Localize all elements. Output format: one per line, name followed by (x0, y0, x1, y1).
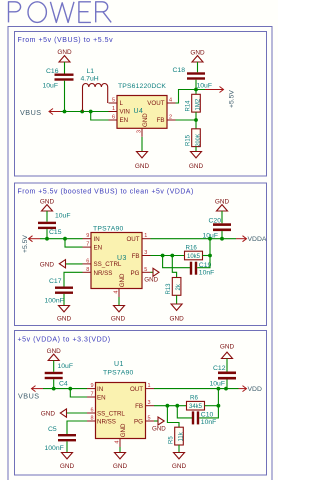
wire C4 to net (53, 379, 55, 388)
svg-text:VOUT: VOUT (147, 100, 164, 107)
junction FB to C10 (175, 404, 179, 408)
svg-text:10uF: 10uF (210, 381, 226, 388)
junction C15 (45, 237, 49, 241)
junction R16/C19 right (208, 254, 212, 258)
hierarchical label VBUS (20, 108, 61, 117)
power flag GND above C4 (47, 348, 62, 361)
wire R13 jog (172, 256, 176, 278)
svg-text:+5.5V: +5.5V (229, 90, 236, 108)
svg-text:R6: R6 (190, 395, 198, 402)
svg-text:From +5v (VBUS) to +5.5v: From +5v (VBUS) to +5.5v (18, 37, 114, 44)
junction feedback column 3 (217, 387, 221, 391)
resistor R6 (187, 395, 219, 410)
junction C16/VBUS (63, 110, 67, 114)
wire GND to C4 (53, 361, 55, 372)
wire EN jog (91, 112, 109, 121)
junction EN branch 3 (68, 387, 72, 391)
svg-text:L: L (120, 100, 124, 107)
wire C17 to ground (63, 294, 65, 306)
svg-text:GND: GND (60, 463, 75, 470)
svg-text:VDDA: VDDA (248, 236, 267, 243)
svg-text:FB: FB (135, 403, 143, 410)
wire NR/SS to C5 (67, 421, 87, 434)
svg-text:C18: C18 (173, 67, 186, 74)
svg-text:From +5.5v (boosted VBUS) to c: From +5.5v (boosted VBUS) to clean +5v (… (18, 189, 194, 196)
svg-text:100nF: 100nF (45, 445, 64, 452)
wire FB 3 (154, 405, 187, 407)
junction EN branch (89, 110, 93, 114)
svg-text:SS_CTRL: SS_CTRL (97, 410, 125, 417)
capacitor C17 (45, 278, 74, 305)
wire GND to C16 (64, 62, 66, 74)
svg-text:C5: C5 (48, 426, 57, 433)
power flag GND above C18 (190, 50, 205, 63)
junction R6/C10 right (217, 404, 221, 408)
power flag GND at SS_CTRL (40, 260, 83, 269)
svg-text:GND: GND (152, 426, 166, 433)
junction C12 (224, 387, 228, 391)
svg-text:5: 5 (112, 98, 115, 104)
svg-text:2: 2 (169, 115, 172, 121)
svg-text:+5.5V: +5.5V (22, 235, 29, 253)
svg-text:6: 6 (112, 115, 115, 121)
svg-text:GND: GND (113, 463, 128, 470)
svg-text:GND: GND (189, 163, 204, 170)
power flag GND above C16 (57, 49, 72, 62)
capacitor C10 (192, 411, 217, 426)
svg-text:R14: R14 (186, 100, 192, 112)
ground under R15 (189, 152, 204, 171)
svg-text:C16: C16 (46, 68, 59, 75)
wire U4 GND pin to ground (141, 137, 143, 152)
svg-text:C20: C20 (209, 218, 222, 225)
section 1 title (18, 37, 114, 44)
svg-text:4.7uH: 4.7uH (81, 76, 99, 83)
junction L1/VBUS (80, 110, 84, 114)
svg-text:10uF: 10uF (55, 213, 71, 220)
svg-text:2k: 2k (176, 283, 182, 290)
svg-text:FB: FB (132, 253, 140, 260)
svg-text:GND: GND (111, 316, 126, 323)
svg-text:1: 1 (148, 383, 151, 389)
svg-text:10uF: 10uF (58, 363, 74, 370)
svg-text:7: 7 (86, 242, 89, 248)
svg-text:+5v (VDDA) to +3.3(VDD): +5v (VDDA) to +3.3(VDD) (18, 337, 111, 344)
svg-text:10uF: 10uF (203, 232, 219, 239)
sheet title POWER (9, 2, 112, 23)
wire C10 right to column (199, 389, 218, 418)
resistor R5 (168, 427, 184, 452)
wire U3 GND pin to ground (118, 297, 120, 306)
wire VOUT to +5.5V net (176, 90, 206, 104)
ground under U1 (113, 453, 128, 471)
wire GND to C12 (226, 359, 228, 372)
hierarchical label +5.5V (205, 87, 236, 109)
wire C18 to net (195, 80, 197, 90)
svg-text:TPS61220DCK: TPS61220DCK (118, 83, 166, 90)
junction feedback column (208, 237, 212, 241)
svg-text:EN: EN (120, 117, 129, 124)
wire C12 to net (226, 380, 228, 389)
resistor R16 (185, 245, 211, 260)
svg-text:GND: GND (57, 49, 72, 56)
resistor R15 (186, 120, 202, 152)
svg-text:10uF: 10uF (43, 83, 59, 90)
power flag GND at SS_CTRL 3 (41, 409, 87, 418)
wire GND to C20 (221, 211, 223, 223)
section box 2 (15, 183, 267, 326)
wire C10 left jog (177, 406, 192, 418)
svg-text:NR/SS: NR/SS (97, 418, 116, 425)
svg-text:1: 1 (144, 233, 147, 239)
junction C20 (220, 237, 224, 241)
svg-text:4: 4 (169, 98, 172, 104)
svg-text:GND: GND (172, 463, 187, 470)
capacitor C16 (43, 68, 74, 90)
svg-text:C4: C4 (59, 381, 68, 388)
svg-text:GND: GND (119, 273, 126, 287)
wire C16 to VBUS net (64, 81, 66, 112)
power flag GND above C12 (220, 344, 235, 359)
wire C5 to ground (66, 441, 68, 452)
svg-text:100nF: 100nF (45, 298, 64, 305)
wire R5 jog (167, 406, 179, 428)
svg-text:OUT: OUT (130, 386, 143, 393)
junction C18/R14 (194, 88, 198, 92)
resistor R14 (186, 90, 202, 121)
power flag GND at PG 3 (152, 417, 166, 433)
svg-text:VDD: VDD (248, 386, 262, 393)
svg-text:TPS7A90: TPS7A90 (93, 226, 124, 233)
wire IN net (40, 238, 83, 240)
junction FB divider (194, 118, 198, 122)
wire OUT net 3 (154, 388, 239, 390)
capacitor C15 (38, 213, 71, 237)
junction FB to C19 (170, 254, 174, 258)
capacitor C19 (190, 262, 215, 277)
hierarchical label VDDA (236, 236, 267, 244)
wire OUT net (151, 238, 237, 240)
svg-text:10k5: 10k5 (187, 254, 201, 260)
svg-text:8: 8 (90, 416, 93, 422)
junction FB to R13 (161, 254, 165, 258)
IC U4 TPS61220DCK (109, 83, 176, 137)
wire C20 to net (221, 231, 223, 239)
junction FB to R5 (166, 404, 170, 408)
svg-text:GND: GND (57, 316, 72, 323)
svg-text:GND: GND (120, 423, 127, 437)
svg-text:PG: PG (134, 418, 143, 425)
svg-text:IN: IN (94, 236, 100, 243)
svg-text:10nF: 10nF (201, 419, 217, 426)
section 2 title (18, 189, 194, 196)
ground under C17 (57, 306, 72, 323)
wire EN jog 2 (65, 239, 83, 247)
capacitor C5 (45, 426, 77, 452)
wire GND to C15 (46, 211, 48, 222)
ground under R5 (172, 453, 187, 471)
svg-text:6: 6 (90, 408, 93, 414)
svg-text:SS_CTRL: SS_CTRL (94, 261, 122, 268)
wire NR/SS to C17 (64, 272, 83, 286)
IC U3 TPS7A90 (83, 226, 151, 298)
svg-text:10uF: 10uF (197, 83, 213, 90)
svg-text:R16: R16 (186, 245, 198, 252)
svg-text:5: 5 (144, 267, 147, 273)
section box 3 (15, 331, 267, 476)
svg-text:C12: C12 (213, 365, 226, 372)
svg-text:10nF: 10nF (199, 270, 215, 277)
power flag GND at PG (144, 268, 159, 283)
svg-text:4: 4 (114, 441, 120, 444)
wire C19 right to column (197, 239, 210, 268)
section 3 title (18, 337, 111, 344)
svg-text:GND: GND (220, 344, 235, 351)
svg-text:7: 7 (90, 392, 93, 398)
hierarchical label VDD (239, 386, 262, 394)
svg-text:3: 3 (144, 250, 147, 256)
svg-text:GND: GND (135, 163, 150, 170)
capacitor C20 (203, 218, 232, 240)
svg-text:R15: R15 (186, 134, 192, 146)
svg-text:6: 6 (86, 258, 89, 264)
label VBUS (input) (18, 386, 43, 401)
svg-text:GND: GND (142, 113, 149, 127)
svg-text:FB: FB (157, 117, 165, 124)
ground under R13 (169, 304, 184, 323)
hierarchical label +5.5V (input) (22, 235, 40, 253)
svg-text:9: 9 (90, 383, 93, 389)
wire C19 left jog (163, 256, 190, 268)
wire FB 2 (151, 255, 185, 257)
wire GND to C18 (197, 62, 199, 72)
svg-text:IN: IN (97, 386, 103, 393)
svg-text:11k: 11k (178, 431, 184, 441)
svg-text:NR/SS: NR/SS (94, 270, 113, 277)
svg-text:GND: GND (144, 277, 158, 284)
wire U1 GND pin to ground (119, 447, 121, 453)
ground under C5 (60, 453, 75, 471)
svg-text:R13: R13 (166, 283, 172, 295)
svg-text:8: 8 (86, 267, 89, 273)
svg-text:TPS7A90: TPS7A90 (103, 370, 134, 377)
svg-text:GND: GND (41, 411, 56, 418)
svg-text:9: 9 (86, 233, 89, 239)
svg-text:C17: C17 (49, 278, 62, 285)
svg-text:1M2: 1M2 (195, 98, 201, 110)
svg-text:EN: EN (97, 395, 106, 402)
svg-text:34k5: 34k5 (189, 404, 203, 410)
power flag GND above C20 (215, 199, 230, 212)
svg-text:R5: R5 (168, 436, 174, 444)
capacitor C4 (45, 363, 73, 388)
svg-text:1: 1 (112, 106, 115, 112)
section box 1 (15, 32, 267, 177)
svg-text:U1: U1 (114, 361, 124, 368)
wire C15 to net (46, 229, 48, 239)
svg-text:VBUS: VBUS (18, 392, 40, 401)
capacitor C18 (173, 67, 213, 90)
svg-text:OUT: OUT (126, 236, 139, 243)
svg-text:GND: GND (40, 261, 55, 268)
wire EN jog 3 (70, 389, 87, 397)
svg-text:PG: PG (131, 270, 140, 277)
junction C4 (52, 387, 56, 391)
capacitor C12 (210, 365, 237, 388)
svg-text:EN: EN (94, 245, 103, 252)
IC U1 TPS7A90 (87, 361, 154, 447)
sheet frame (8, 27, 272, 480)
svg-text:L1: L1 (87, 68, 95, 75)
svg-text:5: 5 (148, 416, 151, 422)
svg-text:3: 3 (136, 130, 142, 133)
wire VBUS bus (61, 111, 109, 113)
svg-text:3: 3 (148, 400, 151, 406)
svg-text:200K: 200K (195, 133, 201, 146)
svg-text:VBUS: VBUS (20, 108, 42, 117)
resistor R13 (166, 278, 182, 305)
svg-text:C15: C15 (49, 229, 62, 236)
ground under U3 (111, 306, 126, 323)
svg-text:VIN: VIN (120, 109, 130, 116)
inductor L1 (81, 68, 108, 112)
wire IN net 3 (43, 388, 87, 390)
power flag GND above C15 (40, 199, 55, 212)
svg-text:4: 4 (113, 291, 119, 294)
svg-text:GND: GND (169, 316, 184, 323)
junction EN branch 2 (63, 237, 67, 241)
wire FB (176, 119, 197, 121)
ground under U4 (135, 152, 150, 171)
